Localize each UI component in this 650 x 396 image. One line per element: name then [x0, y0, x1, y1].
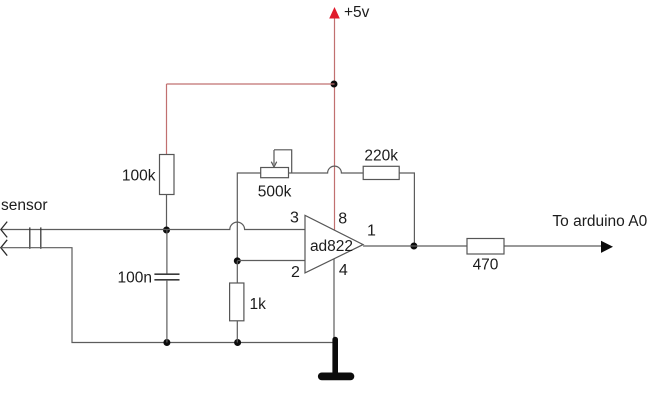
wire: +5v rail vertical (red): [334, 16, 336, 230]
wire: op-amp pin 4 to ground: [333, 259, 335, 338]
wire: 1k bottom to ground rail: [236, 321, 238, 343]
resistor R5 470: [467, 239, 504, 255]
sensor connector arrowhead bottom: [1, 240, 7, 256]
ground symbol stem: [332, 340, 338, 375]
svg-text:220k: 220k: [364, 148, 398, 165]
svg-text:100k: 100k: [122, 168, 156, 185]
wire: pot left terminal down to inverting node: [237, 173, 260, 261]
svg-text:To arduino A0: To arduino A0: [552, 213, 647, 230]
svg-text:sensor: sensor: [1, 197, 48, 214]
capacitor C1 100n plate bottom: [154, 279, 179, 281]
wire: inverting input to op-amp pin 2: [237, 260, 305, 262]
wire: down to resistor 100k (red): [166, 84, 168, 155]
resistor R4 220k: [363, 166, 399, 179]
junction node output: [410, 243, 417, 250]
wire: capacitor bottom lead: [166, 280, 168, 343]
svg-text:+5v: +5v: [344, 4, 370, 21]
wire: 100k bottom to input node: [166, 195, 168, 231]
wire: inverting node down to 1k: [236, 261, 238, 283]
svg-text:1k: 1k: [250, 296, 267, 313]
svg-text:100n: 100n: [118, 270, 152, 287]
svg-text:4: 4: [339, 262, 348, 279]
svg-text:2: 2: [291, 264, 300, 281]
potentiometer wiper loop to right terminal: [274, 150, 292, 173]
svg-text:ad822: ad822: [310, 238, 353, 255]
potentiometer R3 500k body: [261, 168, 289, 178]
svg-text:3: 3: [290, 210, 299, 227]
junction node 1k/ground rail: [234, 339, 241, 346]
resistor R2 1k: [230, 283, 244, 321]
svg-text:8: 8: [338, 210, 347, 227]
junction node sensor/100k: [163, 227, 170, 234]
junction node inverting input: [234, 257, 241, 264]
wire: output to arduino: [363, 245, 602, 247]
output arrowhead: [601, 241, 613, 253]
svg-text:500k: 500k: [258, 184, 292, 201]
wire: pot right to 220k with hop over +5v rail: [289, 166, 364, 173]
wire: capacitor top lead: [166, 230, 168, 274]
wire: sensor top to op-amp pin 3 with hop over vertical: [1, 222, 305, 229]
junction node +5v rail: [331, 81, 338, 88]
wire: sensor bottom lead to ground rail: [1, 248, 335, 343]
wire: 220k right down to output node: [399, 173, 414, 246]
svg-text:1: 1: [367, 222, 376, 239]
sensor connector plate 1: [29, 227, 31, 248]
potentiometer wiper arrow: [271, 150, 276, 167]
power symbol +5v arrow: [329, 7, 340, 19]
sensor connector arrowhead top: [1, 222, 7, 238]
junction node cap/ground rail: [163, 339, 170, 346]
op-amp U1 ad822: [305, 215, 363, 273]
capacitor C1 100n plate top: [154, 273, 179, 275]
ground symbol bar: [322, 372, 351, 380]
wire: +5v rail to 100k horizontal (red): [167, 83, 335, 85]
sensor connector plate 2: [40, 227, 42, 248]
svg-text:470: 470: [473, 257, 499, 274]
resistor R1 100k: [160, 155, 175, 195]
